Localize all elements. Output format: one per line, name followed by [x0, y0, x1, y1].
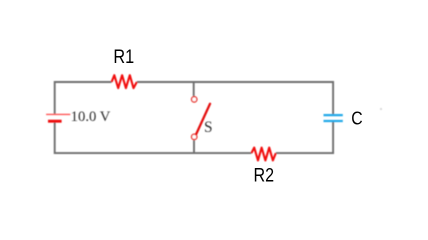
- svg-text:C: C: [351, 109, 362, 129]
- svg-text:10.0 V: 10.0 V: [71, 109, 111, 125]
- svg-text:S: S: [204, 119, 213, 136]
- svg-text:R2: R2: [254, 165, 275, 187]
- svg-text:R1: R1: [113, 46, 134, 68]
